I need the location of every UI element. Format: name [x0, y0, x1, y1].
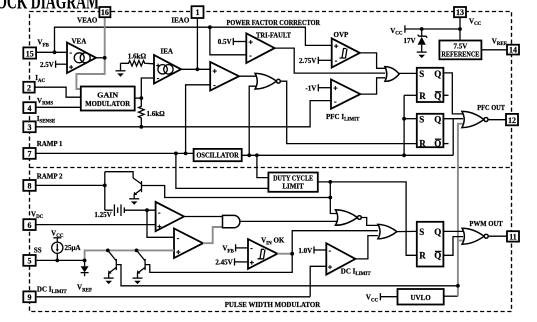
svg-text:17V: 17V: [403, 37, 415, 45]
terminal 2.45V: [234, 258, 236, 265]
pin 5 box: [23, 255, 35, 266]
node clock/ff riser: [402, 153, 406, 157]
node VFB: [53, 50, 57, 54]
svg-text:-1V: -1V: [305, 85, 316, 93]
svg-text:+: +: [213, 66, 218, 75]
wire 2.5V to VEA +: [56, 63, 67, 65]
svg-text:Q: Q: [434, 227, 441, 237]
svg-text:+: +: [157, 222, 162, 231]
flip-flop FF1: [417, 68, 444, 102]
wire FF3 Q to PWM gate: [443, 230, 463, 232]
svg-text:MODULATOR: MODULATOR: [85, 100, 131, 108]
wire FF1 Q to PFC gate: [443, 73, 463, 114]
dashed PFC/PWM divider: [30, 167, 512, 169]
svg-text:+: +: [250, 258, 255, 267]
wire ramp1 to DCL input2: [176, 153, 269, 188]
wire ramp1 to PFC comparator: [186, 85, 211, 154]
comparator PWM lower (SS): [174, 229, 203, 259]
node SS/diode: [83, 259, 87, 263]
svg-text:12: 12: [508, 116, 516, 125]
node RAMP2: [103, 184, 107, 188]
node gain modulator output: [139, 96, 143, 100]
node ramp1/dcl: [174, 152, 178, 156]
svg-text:OSCILLATOR: OSCILLATOR: [196, 152, 239, 160]
terminal 1.0V: [313, 246, 315, 253]
svg-text:1.6kΩ: 1.6kΩ: [128, 53, 147, 61]
terminal 2.5V: [55, 61, 57, 68]
svg-text:7: 7: [28, 150, 32, 159]
transistor Q ramp2 discharge: [133, 178, 141, 184]
wire AND output to NOR: [240, 220, 337, 222]
wire OVP output: [360, 53, 385, 68]
wire FF2 S input: [404, 118, 417, 120]
svg-text:14: 14: [509, 46, 517, 55]
flip-flop FF2: [417, 114, 444, 147]
ground for 1.6k input resistor: [120, 63, 122, 71]
wire upper comparator to AND: [184, 216, 223, 218]
flip-flop FF3: [417, 222, 444, 267]
pin 12 box: [506, 114, 518, 125]
wire DCL branch to PWM NOR: [330, 182, 336, 214]
svg-text:S: S: [419, 114, 424, 124]
svg-text:RAMP 1: RAMP 1: [37, 140, 63, 148]
pin 6 box: [23, 219, 35, 230]
svg-text:6: 6: [28, 221, 32, 230]
wire PFC ILIMIT output: [360, 78, 385, 94]
pin 14 box: [507, 45, 519, 55]
box OSCILLATOR: [194, 149, 242, 161]
node SS/current source: [55, 259, 59, 263]
wire VIN OK output (gray): [277, 253, 292, 255]
svg-text:LIMIT: LIMIT: [282, 182, 304, 190]
gate NOR PWM OUT: [462, 228, 484, 244]
svg-text:8: 8: [28, 182, 32, 191]
svg-text:2.45V: 2.45V: [215, 259, 232, 267]
svg-text:Q: Q: [434, 69, 441, 79]
node IEAO: [196, 67, 200, 71]
svg-text:VEA: VEA: [72, 38, 87, 46]
svg-text:RAMP 2: RAMP 2: [37, 172, 63, 180]
svg-text:4: 4: [28, 104, 32, 113]
wire to pin 12: [488, 119, 506, 121]
svg-text:IEAO: IEAO: [171, 17, 189, 25]
gate NOR PFC OUT: [462, 111, 484, 127]
pin 8 box: [23, 180, 35, 191]
comparator PFC: [210, 62, 239, 91]
svg-text:25µA: 25µA: [65, 244, 81, 252]
svg-text:1.6kΩ: 1.6kΩ: [147, 110, 166, 118]
node UVLO/SS: [456, 284, 460, 288]
terminal 0.5V: [232, 38, 234, 45]
wire NOR to OR: [361, 218, 378, 226]
wire FF2 Q branch to clock rail: [452, 119, 454, 156]
svg-text:16: 16: [101, 8, 109, 17]
svg-text:POWER FACTOR CORRECTOR: POWER FACTOR CORRECTOR: [227, 19, 321, 27]
gate OR PWM: [378, 224, 397, 238]
pin 1 box: [192, 6, 204, 18]
gate OR PFC: [385, 67, 399, 82]
node DCL output branch: [328, 180, 332, 184]
svg-text:+: +: [333, 83, 338, 92]
node VEA output: [103, 56, 107, 60]
svg-text:9: 9: [28, 293, 32, 302]
svg-text:2.5V: 2.5V: [40, 61, 54, 69]
svg-text:S: S: [419, 69, 424, 79]
node ramp1/comparator: [184, 152, 188, 156]
wire VFB rail: [55, 27, 332, 52]
wire OR to FF3 S: [397, 230, 417, 232]
svg-text:1.25V: 1.25V: [94, 211, 111, 219]
wire UVLO gray vertical: [444, 295, 458, 297]
svg-text:Q: Q: [434, 251, 441, 261]
svg-text:R: R: [419, 251, 426, 261]
box UVLO: [398, 289, 444, 305]
wire IAC to gain modulator: [34, 87, 81, 97]
wire VRMS to gain modulator: [36, 106, 81, 108]
wire to IEA inverting input: [141, 78, 154, 98]
wire reference to pin 14: [481, 49, 507, 51]
resistor 1.6k vertical: [139, 98, 145, 127]
wire pin15 to VEA: [36, 51, 67, 53]
wire DC ILIMIT output: [355, 236, 378, 259]
wire lower comparator to AND (gray): [203, 227, 223, 243]
wire VIN OK to OR (passes under NOR): [292, 231, 378, 254]
wire battery to comparators: [124, 209, 155, 211]
svg-text:R: R: [419, 138, 426, 148]
svg-text:DUTY CYCLE: DUTY CYCLE: [273, 174, 313, 182]
wire NOR output to FF2 R: [280, 81, 417, 143]
svg-text:+: +: [176, 247, 181, 256]
svg-text:S: S: [419, 227, 424, 237]
svg-text:7.5V: 7.5V: [453, 43, 467, 51]
wire VEAO gray net: [76, 17, 104, 89]
wire DCL output to FF3 R: [318, 182, 417, 255]
gate NOR PFC: [255, 73, 277, 89]
svg-text:1.0V: 1.0V: [298, 247, 312, 255]
hysteresis glyph OVP: [340, 49, 348, 59]
svg-text:Q: Q: [434, 91, 441, 101]
node clock/dcl riser: [255, 153, 259, 157]
svg-text:GAIN: GAIN: [97, 92, 118, 100]
wire SS net: [37, 259, 85, 261]
terminal VCC UVLO: [379, 293, 381, 300]
ground ramp2 transistor: [129, 198, 139, 200]
wire FF1 Qbar stub: [443, 94, 448, 96]
svg-text:+: +: [334, 42, 339, 51]
wire RAMP1 rail: [36, 152, 194, 154]
comparator PFC ILIMIT: [331, 80, 360, 109]
svg-text:R: R: [419, 91, 426, 101]
svg-text:+: +: [328, 263, 333, 272]
svg-text:0.5V: 0.5V: [218, 38, 232, 46]
wire UVLO to SS transistor1 base: [116, 265, 458, 286]
pin 15 box: [23, 47, 36, 58]
node base wire junction: [328, 196, 332, 200]
terminal -1V: [317, 84, 319, 91]
box 7.5V REFERENCE: [439, 41, 481, 60]
svg-text:UVLO: UVLO: [410, 294, 431, 302]
node clock/nor riser: [247, 153, 251, 157]
wire ISENSE rail: [36, 101, 331, 127]
svg-text:3: 3: [28, 123, 32, 132]
wire VEA output: [96, 57, 105, 59]
svg-text:2: 2: [27, 84, 31, 93]
wire pin13 to reference: [459, 17, 461, 41]
wire OR to FF1 S: [399, 72, 417, 74]
svg-text:+: +: [156, 61, 161, 70]
pin 13 box: [454, 7, 466, 17]
svg-text:1: 1: [196, 8, 200, 17]
resistor 1.6k horizontal: [121, 61, 155, 67]
pin 16 box: [99, 7, 110, 17]
node VFB/TRI-FAULT branch: [208, 25, 212, 29]
op-amp VEA: [67, 43, 96, 74]
pin 3 box: [23, 121, 35, 132]
pin 9 box: [23, 291, 35, 302]
transistor SS discharge 2: [135, 249, 139, 253]
wire FF2 Qbar stub: [443, 143, 448, 145]
svg-text:15: 15: [26, 49, 34, 58]
node ISENSE/resistor: [139, 125, 143, 129]
wire clock to DCL input1: [257, 155, 269, 177]
svg-text:OVP: OVP: [334, 31, 350, 39]
wire FF3 Qbar to PWM gate: [443, 237, 463, 256]
wire VIN OK to SS transistor2 base: [145, 254, 292, 273]
wire clock rail right: [242, 154, 454, 156]
svg-text:+: +: [69, 62, 74, 71]
comparator OVP: [332, 38, 360, 67]
wire FF2 Q to PFC gate: [443, 118, 463, 120]
wire NOR lower input riser: [249, 86, 256, 155]
wire VDC: [36, 224, 156, 226]
pin 4 box: [23, 102, 35, 113]
svg-text:IEA: IEA: [161, 48, 173, 56]
svg-text:13: 13: [456, 8, 464, 17]
gate AND PWM: [223, 215, 240, 227]
gate NOR PWM: [335, 210, 357, 226]
svg-text:+: +: [249, 38, 254, 47]
wire DC ILIMIT pin 9: [37, 296, 311, 298]
diode to VREF: [84, 260, 86, 266]
wire to pin 11: [488, 235, 507, 237]
svg-text:Q: Q: [434, 114, 441, 124]
node VIN OK output: [290, 252, 294, 256]
pin 11 box: [507, 231, 519, 241]
wire gain modulator output: [135, 97, 142, 99]
wire RAMP2 net: [36, 184, 105, 186]
svg-text:5: 5: [28, 257, 32, 266]
svg-text:PWM OUT: PWM OUT: [469, 220, 503, 228]
wire comparator to NOR: [239, 75, 256, 77]
svg-text:2.75V: 2.75V: [299, 57, 316, 65]
op-amp IEA: [154, 55, 181, 84]
svg-text:VEAO: VEAO: [77, 17, 98, 25]
wire FF riser: [403, 95, 405, 155]
zener 17V: [421, 29, 423, 36]
transistor SS discharge 1: [106, 249, 110, 253]
wire FF1 R input: [404, 94, 417, 96]
terminal VFB: [235, 244, 237, 251]
svg-text:11: 11: [509, 233, 517, 242]
svg-text:SS: SS: [34, 246, 42, 254]
wire TRI-FAULT output: [275, 48, 386, 73]
wire VFB branch to TRI-FAULT: [210, 27, 246, 55]
box GAIN MODULATOR: [81, 87, 135, 111]
wire pin1 IEAO vertical: [196, 18, 198, 69]
ground transistor 1: [104, 277, 114, 279]
pin 2 box: [23, 82, 34, 93]
node FF2 S: [402, 117, 406, 121]
ground transistor 2: [133, 277, 143, 279]
pin 7 box: [23, 148, 35, 159]
comparator TRI-FAULT: [246, 33, 274, 63]
ground zener: [417, 51, 427, 53]
svg-text:TRI-FAULT: TRI-FAULT: [256, 31, 291, 39]
svg-text:REFERENCE: REFERENCE: [441, 51, 479, 59]
wire pin9 riser to DC ILIMIT +: [310, 266, 326, 297]
terminal 2.75V: [317, 57, 319, 64]
svg-text:PULSE WIDTH MODULATOR: PULSE WIDTH MODULATOR: [225, 301, 321, 309]
svg-text:Q: Q: [434, 138, 441, 148]
svg-text:PFC OUT: PFC OUT: [477, 104, 505, 112]
wire transistor base to DCL: [142, 186, 331, 198]
wire IEA output: [181, 68, 210, 70]
wire to transistor collector: [105, 172, 133, 178]
battery 1.25V: [105, 209, 113, 211]
wire UVLO to PWM gate: [458, 240, 463, 242]
